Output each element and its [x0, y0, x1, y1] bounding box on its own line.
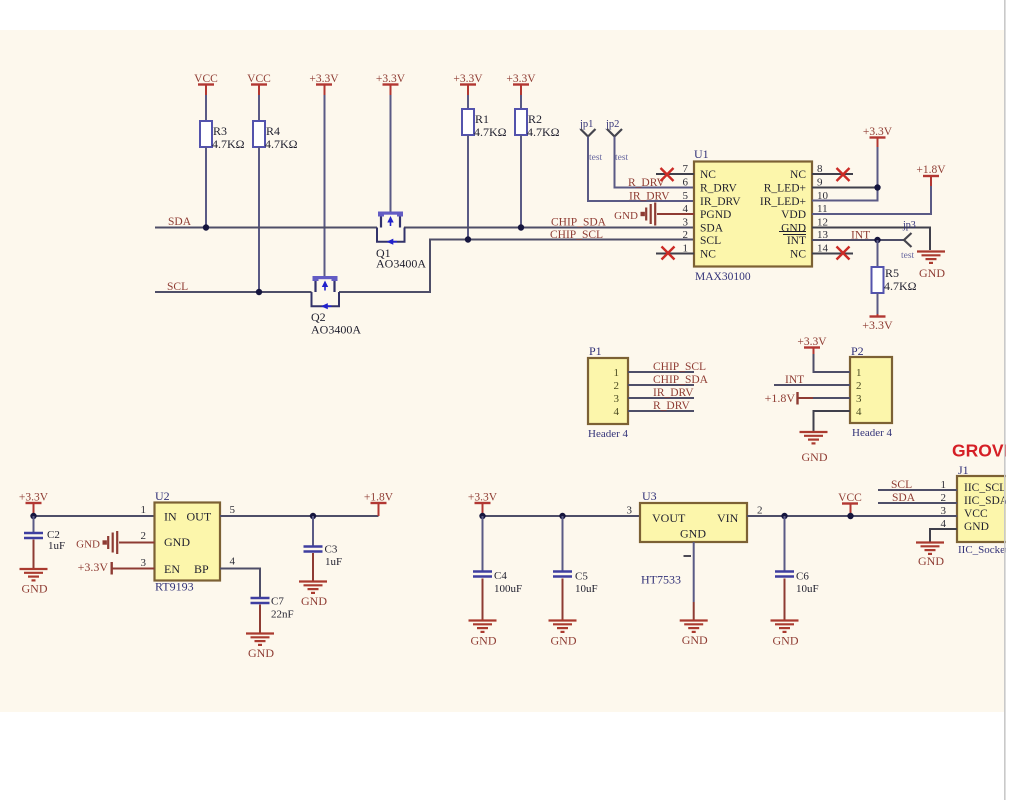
- svg-text:C5: C5: [575, 571, 588, 583]
- svg-text:1: 1: [856, 367, 862, 379]
- U3 pin numbers: [627, 505, 763, 517]
- resistor R1: [462, 109, 474, 135]
- svg-text:GND: GND: [614, 210, 638, 222]
- wire R_LED+: [812, 147, 878, 201]
- svg-text:BP: BP: [194, 562, 209, 576]
- svg-text:GND: GND: [781, 223, 806, 235]
- wire U2 pin2: [119, 542, 155, 544]
- node VCC junction: [847, 513, 853, 519]
- svg-text:GND: GND: [919, 266, 945, 280]
- svg-text:IIC_Socket: IIC_Socket: [958, 544, 1008, 556]
- svg-text:4: 4: [230, 556, 236, 568]
- svg-text:+3.3V: +3.3V: [468, 492, 498, 504]
- svg-text:OUT: OUT: [187, 510, 212, 524]
- capacitor C5: [562, 516, 564, 572]
- svg-text:GND: GND: [773, 634, 799, 648]
- svg-text:R_DRV: R_DRV: [700, 183, 737, 195]
- capacitor C7: [251, 598, 270, 603]
- svg-text:Header 4: Header 4: [588, 428, 629, 440]
- svg-text:MAX30100: MAX30100: [695, 271, 751, 283]
- svg-text:test: test: [901, 251, 915, 261]
- svg-text:+1.8V: +1.8V: [765, 391, 796, 405]
- svg-text:C7: C7: [271, 596, 284, 608]
- svg-text:2: 2: [683, 229, 689, 241]
- power +3.3V (P2): [797, 336, 827, 348]
- svg-text:SDA: SDA: [700, 223, 724, 235]
- svg-text:AO3400A: AO3400A: [376, 257, 426, 271]
- svg-text:1uF: 1uF: [325, 556, 342, 568]
- power VCC (R4): [247, 73, 271, 85]
- wire PGND to pin4: [657, 213, 694, 215]
- svg-text:GND: GND: [680, 527, 706, 541]
- no-connect X pin8: [837, 168, 850, 181]
- wire: [467, 95, 469, 109]
- power VCC (R3): [194, 73, 218, 85]
- svg-text:+3.3V: +3.3V: [78, 560, 109, 574]
- power +3.3V (Q1 gate): [376, 73, 406, 85]
- wire C5 to GND: [562, 579, 564, 621]
- power VCC (J1): [838, 492, 862, 504]
- svg-text:NC: NC: [700, 169, 716, 181]
- svg-text:R1: R1: [475, 112, 489, 126]
- node INT junction: [874, 237, 880, 243]
- pin 8 stub: [812, 173, 853, 175]
- ground (U1 GND): [917, 252, 945, 281]
- svg-text:jp2: jp2: [605, 119, 619, 130]
- power +1.8V (VDD): [916, 164, 946, 176]
- wire pin9: [812, 187, 878, 189]
- svg-text:test: test: [615, 153, 629, 163]
- capacitor C4: [482, 516, 484, 572]
- svg-text:SCL: SCL: [700, 235, 721, 247]
- svg-text:VDD: VDD: [781, 209, 806, 221]
- power +3.3V (Q2 gate): [309, 73, 339, 85]
- svg-text:GND: GND: [301, 594, 327, 608]
- svg-text:3: 3: [141, 557, 147, 569]
- wire C3 to GND: [312, 553, 314, 581]
- wire CHIP_SDA: [404, 227, 694, 229]
- ground (J1): [916, 543, 944, 569]
- wire C6 to GND: [784, 579, 786, 621]
- svg-text:10uF: 10uF: [796, 583, 819, 595]
- svg-text:GND: GND: [964, 521, 989, 533]
- svg-text:GND: GND: [551, 634, 577, 648]
- svg-text:2: 2: [856, 380, 862, 392]
- wire VDD: [812, 186, 931, 214]
- svg-text:GND: GND: [918, 554, 944, 568]
- svg-text:1: 1: [614, 367, 620, 379]
- svg-text:VCC: VCC: [247, 73, 271, 85]
- svg-text:2: 2: [614, 380, 620, 392]
- svg-text:+1.8V: +1.8V: [916, 164, 946, 176]
- svg-text:+3.3V: +3.3V: [19, 492, 49, 504]
- svg-text:U2: U2: [155, 489, 170, 503]
- svg-text:SDA: SDA: [168, 216, 192, 228]
- wire: [520, 95, 522, 109]
- svg-text:R2: R2: [528, 112, 542, 126]
- svg-text:HT7533: HT7533: [641, 573, 681, 587]
- U2 pin numbers: [141, 504, 236, 569]
- resistor R4: [253, 121, 265, 147]
- svg-text:R_DRV: R_DRV: [628, 177, 665, 189]
- node R_LED junction: [874, 184, 880, 190]
- node C5 junction: [559, 513, 565, 519]
- svg-text:1: 1: [141, 504, 147, 516]
- svg-text:GND: GND: [76, 539, 100, 551]
- wire P2 pin3: [798, 397, 814, 399]
- svg-text:2: 2: [757, 505, 763, 517]
- wire C4 to GND: [482, 579, 484, 621]
- svg-text:10uF: 10uF: [575, 583, 598, 595]
- svg-text:VIN: VIN: [717, 511, 739, 525]
- svg-text:IR_DRV: IR_DRV: [700, 196, 741, 208]
- svg-text:4.7KΩ: 4.7KΩ: [884, 279, 917, 293]
- svg-text:GND: GND: [22, 582, 48, 596]
- ground (C7): [246, 634, 274, 661]
- svg-text:3: 3: [627, 505, 633, 517]
- svg-text:NC: NC: [700, 249, 716, 261]
- wire C7 to GND: [259, 605, 261, 634]
- node SDA-R3 junction: [203, 224, 209, 230]
- svg-text:J1: J1: [958, 463, 969, 477]
- svg-text:+3.3V: +3.3V: [376, 73, 406, 85]
- wire R5 to +3.3V: [877, 293, 879, 314]
- svg-text:EN: EN: [164, 562, 180, 576]
- wire INT to R5: [877, 240, 879, 267]
- no-connect X pin7: [661, 168, 674, 181]
- op-amp U1 body: [694, 162, 812, 267]
- ground (C6): [771, 621, 799, 648]
- power +3.3V (U3): [468, 492, 498, 504]
- svg-text:5: 5: [683, 190, 689, 202]
- wire +3.3V to VOUT: [483, 515, 641, 517]
- svg-text:3: 3: [856, 393, 862, 405]
- svg-text:4.7KΩ: 4.7KΩ: [527, 125, 560, 139]
- svg-text:2: 2: [141, 530, 147, 542]
- svg-text:4.7KΩ: 4.7KΩ: [474, 125, 507, 139]
- wire GND pin12: [812, 228, 930, 251]
- transistor Q1: [377, 212, 405, 245]
- svg-text:U3: U3: [642, 489, 657, 503]
- svg-text:VCC: VCC: [838, 492, 862, 504]
- svg-text:+1.8V: +1.8V: [364, 492, 394, 504]
- node CHIP_SDA-R2 junction: [518, 224, 524, 230]
- wire jp2 to R_DRV: [615, 137, 695, 188]
- resistor R2: [515, 109, 527, 135]
- wire: [520, 135, 522, 228]
- svg-text:4.7KΩ: 4.7KΩ: [265, 137, 298, 151]
- wire J1 pin2: [878, 502, 957, 504]
- svg-text:AO3400A: AO3400A: [311, 323, 361, 337]
- wire J1 pin4: [930, 529, 957, 543]
- U1 right pin numbers: [817, 163, 829, 255]
- wire: [324, 95, 326, 276]
- U1 right pin names: [760, 169, 806, 261]
- svg-text:GROVE: GROVE: [952, 441, 1010, 461]
- svg-text:R_DRV: R_DRV: [653, 400, 690, 412]
- power +3.3V (U2 in): [19, 492, 49, 504]
- svg-text:CHIP_SCL: CHIP_SCL: [653, 361, 706, 373]
- svg-text:4: 4: [614, 406, 620, 418]
- svg-text:4: 4: [856, 406, 862, 418]
- resistor R3: [200, 121, 212, 147]
- pin 1 stub: [656, 253, 694, 255]
- wire: [205, 95, 207, 121]
- svg-text:VCC: VCC: [194, 73, 218, 85]
- wire +3.3V to IN: [33, 512, 35, 516]
- wire P2 pin1: [814, 354, 851, 372]
- svg-text:C3: C3: [325, 544, 338, 556]
- svg-text:CHIP_SCL: CHIP_SCL: [550, 229, 603, 241]
- power ground (U2 GND pin): [76, 531, 117, 554]
- svg-text:IN: IN: [164, 510, 177, 524]
- wire: [258, 95, 260, 121]
- node CHIP_SCL-R1 junction: [465, 236, 471, 242]
- node C2 junction: [30, 513, 36, 519]
- svg-text:+3.3V: +3.3V: [453, 73, 483, 85]
- svg-text:CHIP_SDA: CHIP_SDA: [653, 374, 709, 386]
- ground (C5): [549, 621, 577, 648]
- wire U3 GND: [693, 542, 695, 602]
- svg-text:GND: GND: [248, 646, 274, 660]
- svg-text:NC: NC: [790, 249, 806, 261]
- power +3.3V (LED supply): [863, 126, 893, 138]
- power +1.8V (U2 out): [364, 492, 394, 504]
- node C4 junction: [479, 513, 485, 519]
- wire: [390, 95, 392, 212]
- wire SDA: [155, 227, 377, 229]
- svg-text:C4: C4: [494, 570, 507, 582]
- wire U2 pin3: [112, 568, 155, 570]
- svg-text:P1: P1: [589, 344, 602, 358]
- wire INT: [812, 239, 904, 241]
- svg-text:GND: GND: [471, 634, 497, 648]
- wire SCL: [155, 291, 312, 293]
- ground (U3): [680, 621, 708, 648]
- svg-text:+3.3V: +3.3V: [309, 73, 339, 85]
- node SCL-R4 junction: [256, 289, 262, 295]
- node C3 junction: [310, 513, 316, 519]
- svg-text:5: 5: [230, 504, 236, 516]
- wire P1 pin1 CHIP_SCL: [628, 371, 694, 373]
- wire P2 pin4: [814, 411, 851, 432]
- svg-text:IIC_SCL: IIC_SCL: [964, 482, 1006, 494]
- U3 GND pin dash: [684, 555, 692, 557]
- svg-text:P2: P2: [851, 344, 864, 358]
- pin 14 stub: [812, 253, 853, 255]
- wire P2 pin2 INT: [774, 384, 850, 386]
- wire VIN net: [747, 515, 957, 517]
- svg-text:Header 4: Header 4: [852, 427, 893, 439]
- wire P1 pin4 R_DRV: [628, 410, 694, 412]
- capacitor C3: [312, 516, 314, 546]
- wire: [467, 135, 469, 240]
- svg-text:3: 3: [614, 393, 620, 405]
- ground (C4): [469, 621, 497, 648]
- ground (C2): [20, 569, 48, 596]
- wire P1 pin3 IR_DRV: [628, 397, 694, 399]
- resistor R5: [872, 267, 884, 293]
- wire BP to C7: [220, 569, 260, 599]
- svg-text:GND: GND: [682, 633, 708, 647]
- svg-text:PGND: PGND: [700, 209, 731, 221]
- ground (C3): [299, 582, 327, 609]
- svg-text:CHIP_SDA: CHIP_SDA: [551, 217, 607, 229]
- svg-text:IR_LED+: IR_LED+: [760, 196, 806, 208]
- wire C2 to GND: [33, 540, 35, 569]
- wire P1 pin2 CHIP_SDA: [628, 384, 694, 386]
- node C6 junction: [781, 513, 787, 519]
- svg-text:INT: INT: [787, 235, 806, 247]
- svg-text:test: test: [589, 153, 603, 163]
- svg-text:GND: GND: [164, 535, 190, 549]
- svg-text:VCC: VCC: [964, 508, 988, 520]
- svg-text:1uF: 1uF: [48, 540, 65, 552]
- power +3.3V (R5 pull-up): [877, 314, 879, 317]
- svg-text:RT9193: RT9193: [155, 580, 194, 594]
- U1 left pin numbers: [683, 163, 689, 255]
- svg-text:+3.3V: +3.3V: [862, 318, 893, 332]
- svg-text:R4: R4: [266, 124, 280, 138]
- svg-text:3: 3: [683, 217, 689, 229]
- wire CHIP_SCL: [339, 240, 694, 293]
- svg-text:R_LED+: R_LED+: [764, 183, 806, 195]
- wire: [258, 147, 260, 292]
- svg-text:NC: NC: [790, 169, 806, 181]
- wire: [205, 147, 207, 228]
- power +3.3V (R1): [453, 73, 483, 85]
- svg-text:U1: U1: [694, 147, 709, 161]
- power ground PGND: [614, 203, 655, 226]
- U1 left pin names: [700, 169, 741, 261]
- svg-text:IR_DRV: IR_DRV: [629, 191, 670, 203]
- svg-text:4.7KΩ: 4.7KΩ: [212, 137, 245, 151]
- svg-text:IR_DRV: IR_DRV: [653, 387, 694, 399]
- transistor Q2: [312, 276, 340, 309]
- svg-text:6: 6: [683, 177, 689, 189]
- svg-text:+3.3V: +3.3V: [863, 126, 893, 138]
- svg-text:IIC_SDA: IIC_SDA: [964, 495, 1009, 507]
- wire OUT to +1.8V: [220, 515, 379, 517]
- ground (P2): [800, 432, 828, 464]
- svg-text:100uF: 100uF: [494, 583, 522, 595]
- capacitor C2: [33, 516, 35, 533]
- no-connect X pin14: [837, 247, 850, 260]
- svg-text:+3.3V: +3.3V: [506, 73, 536, 85]
- svg-text:VOUT: VOUT: [652, 511, 686, 525]
- svg-text:22nF: 22nF: [271, 609, 294, 621]
- no-connect X pin1: [662, 247, 675, 260]
- wire jp1 to IR_DRV: [588, 137, 694, 202]
- svg-text:GND: GND: [802, 450, 828, 464]
- wire J1 pin1: [878, 489, 957, 491]
- svg-text:C6: C6: [796, 571, 809, 583]
- svg-text:R3: R3: [213, 124, 227, 138]
- svg-text:+3.3V: +3.3V: [797, 336, 827, 348]
- capacitor C6: [784, 516, 786, 572]
- svg-text:R5: R5: [885, 266, 899, 280]
- svg-text:jp3: jp3: [902, 220, 916, 231]
- pin 7 stub: [656, 173, 694, 175]
- power +3.3V (R2): [506, 73, 536, 85]
